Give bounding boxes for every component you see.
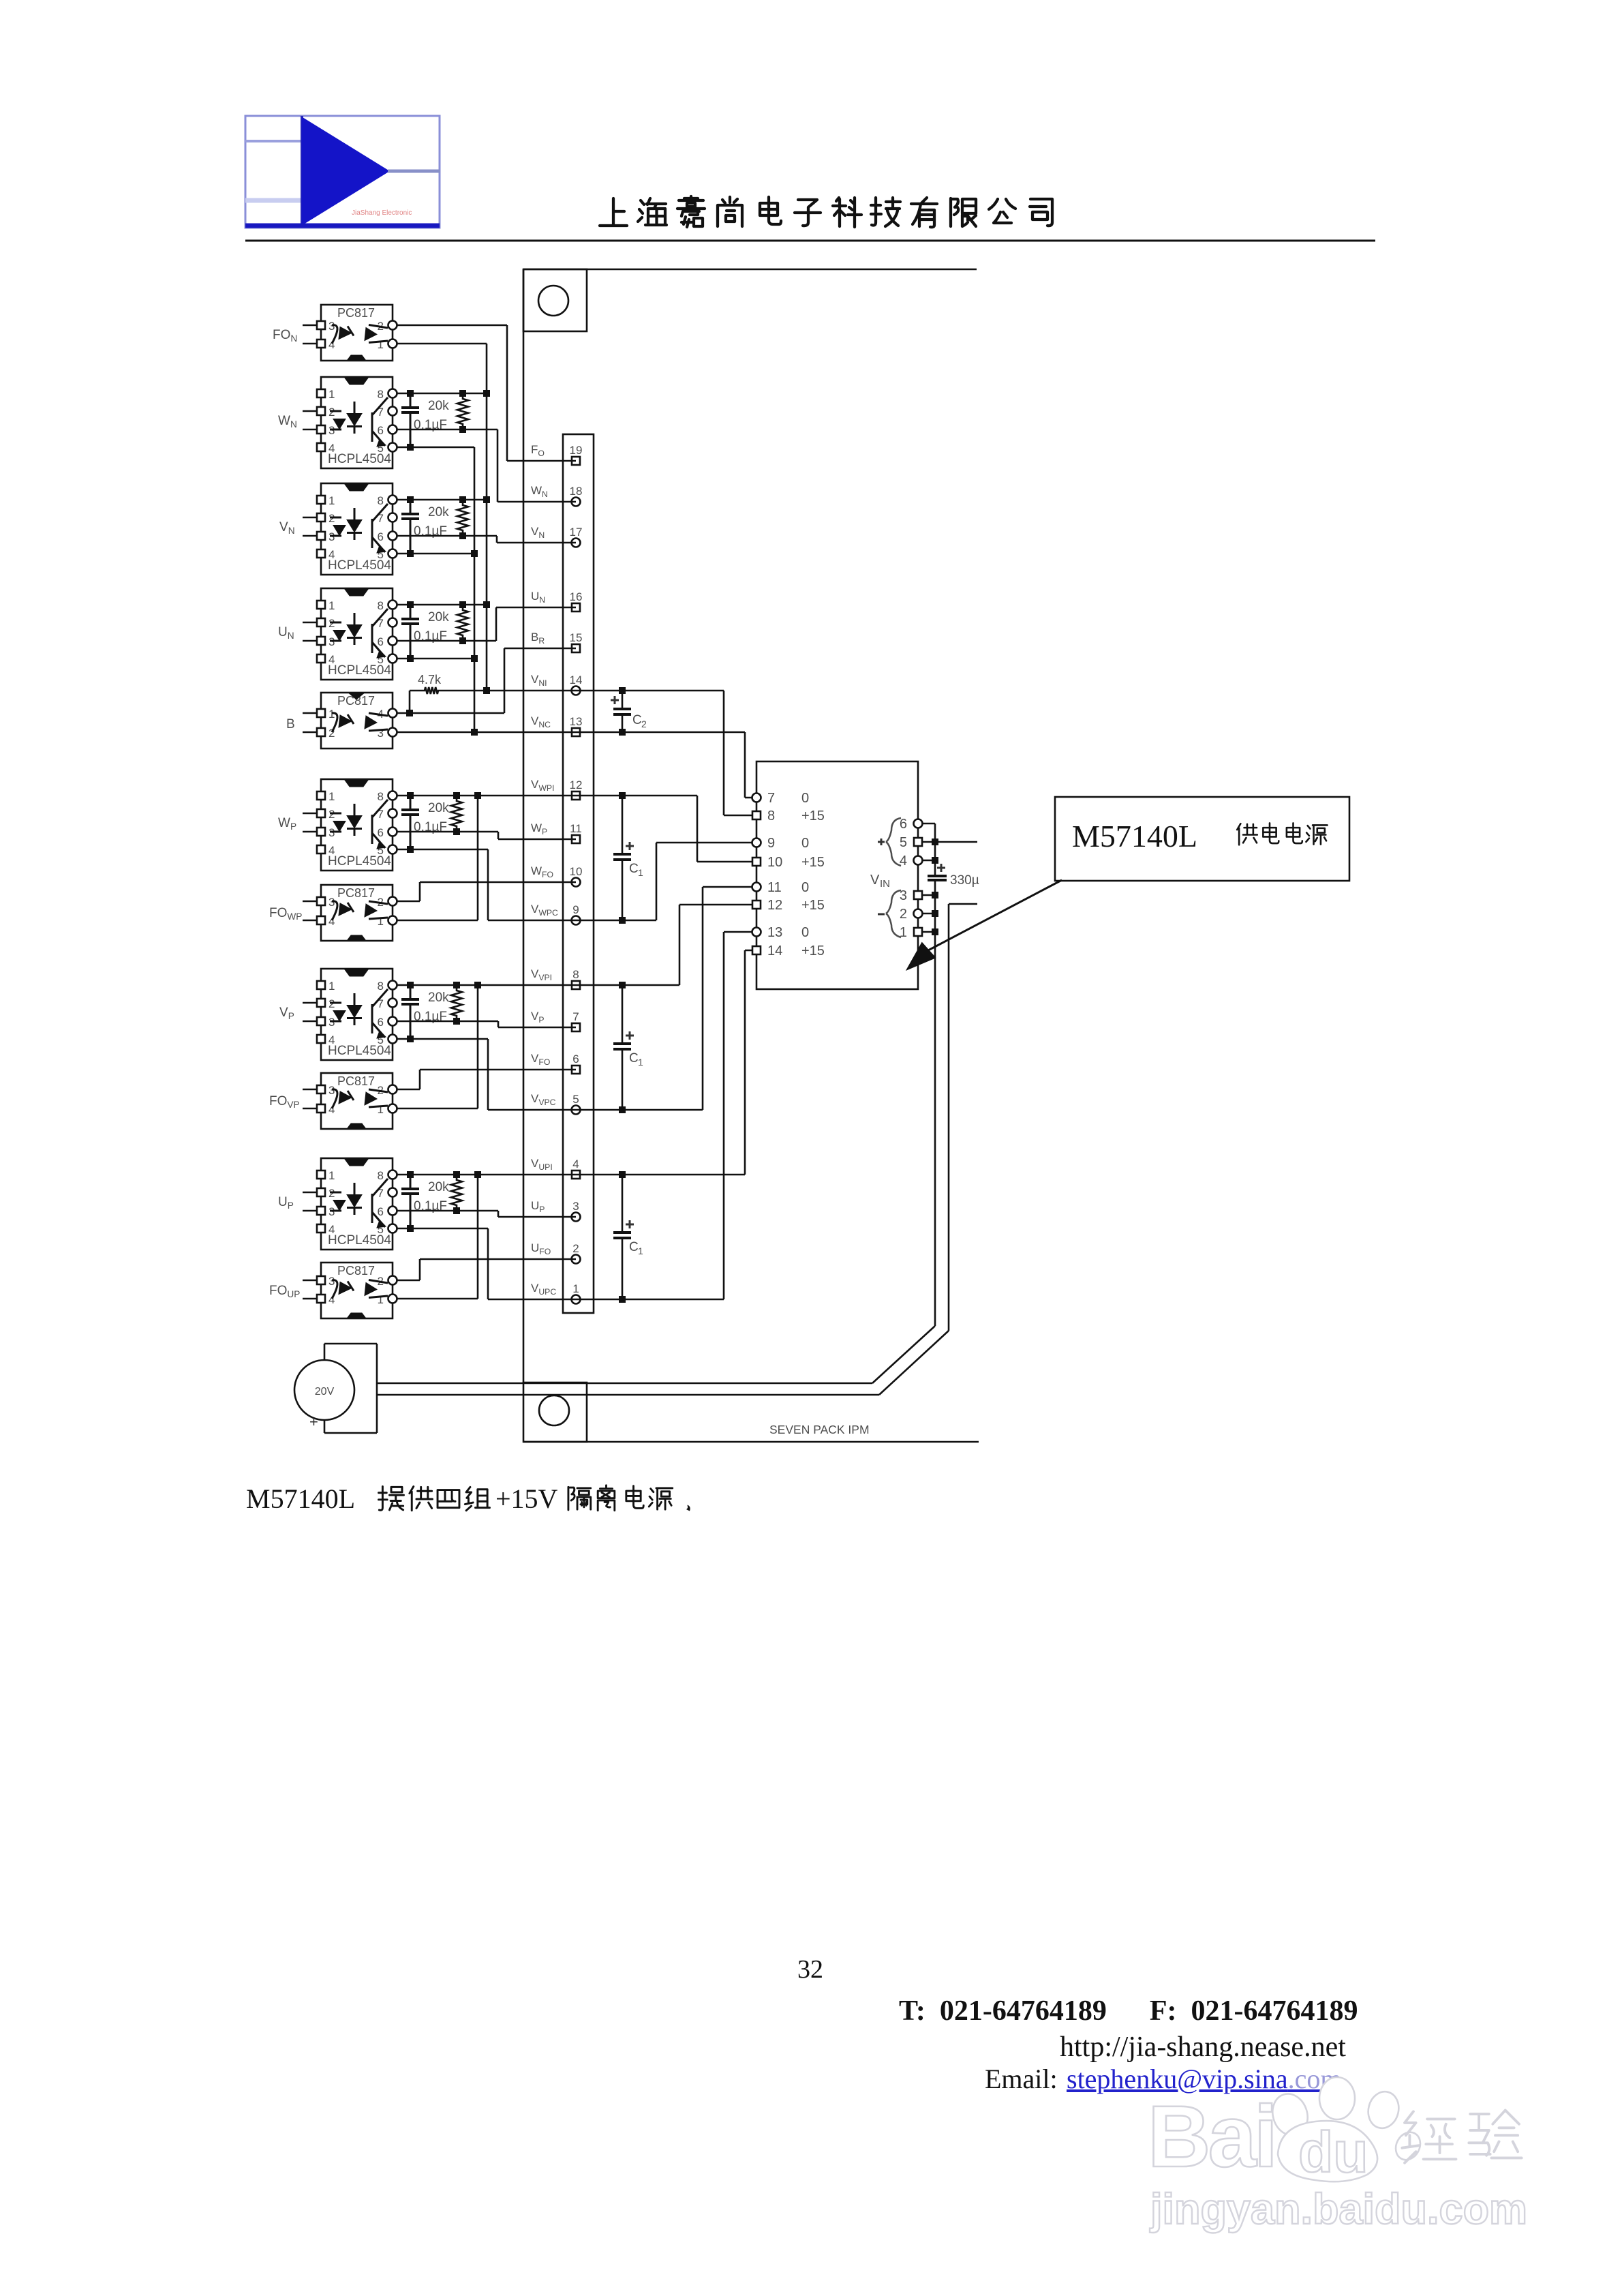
svg-text:8: 8 [378,1169,384,1182]
svg-text:7: 7 [572,1010,579,1023]
wire W_P pin5 to row9 [397,849,488,920]
svg-text:+15: +15 [801,809,825,824]
capacitor 0.1uF and resistor 20k group W_N [401,390,468,451]
wire row1 V_UPC to module pin13 [488,932,756,1299]
svg-text:BR: BR [531,631,545,646]
svg-text:6: 6 [378,826,384,839]
optocoupler U7 PC817 FO_WP [317,885,397,941]
caption text M57140L provides four +15V isolated supplies [246,1483,690,1514]
svg-text:1: 1 [572,1282,579,1295]
svg-text:14: 14 [767,943,782,958]
svg-text:IN: IN [880,878,890,890]
svg-text:20k: 20k [428,505,449,519]
svg-text:32: 32 [797,1955,823,1984]
svg-text:UN: UN [278,625,294,641]
svg-text:UFO: UFO [531,1241,551,1256]
junction row4 to FO_UP pin1 bus [397,1171,481,1299]
mounting hole bottom [523,1383,587,1442]
svg-text:jingyan.baidu.com: jingyan.baidu.com [1150,2186,1527,2233]
svg-text:1: 1 [378,1293,384,1306]
callout box CJK text [1237,823,1327,845]
svg-text:1: 1 [328,790,335,803]
contact phone fax [899,1995,1358,2027]
callout arrow [906,880,1062,970]
svg-text:5: 5 [572,1093,579,1106]
svg-text:7: 7 [767,791,775,806]
svg-text:M57140L: M57140L [246,1483,355,1514]
callout box M57140L label [1055,797,1349,881]
capacitor 330u [928,864,979,888]
svg-text:http://jia-shang.nease.net: http://jia-shang.nease.net [1060,2031,1346,2063]
wire V_N pin6 to J1 pin17 [397,536,576,543]
svg-text:9: 9 [572,903,579,916]
company name title [600,196,1052,227]
svg-text:8: 8 [378,790,384,803]
svg-text:13: 13 [767,925,782,940]
svg-text:9: 9 [767,836,775,851]
svg-text:du: du [1298,2120,1368,2184]
svg-text:3: 3 [328,320,335,333]
svg-text:8: 8 [767,809,775,824]
wire 20V positive diagonal [377,1326,935,1383]
junction +15N at W_N pin8 [397,390,490,397]
svg-text:6: 6 [378,635,384,648]
label FO_VP input [269,1094,300,1110]
svg-text:VUPI: VUPI [531,1157,553,1172]
wire U1 pin2 to J1 pin19 Fo [397,325,576,461]
svg-text:0: 0 [801,791,809,806]
svg-text:1: 1 [638,1245,643,1256]
svg-text:14: 14 [570,674,583,686]
svg-text:WP: WP [531,821,547,836]
wire 20V negative diagonal [377,1331,949,1395]
svg-text:VP: VP [531,1010,545,1025]
label B input [286,717,295,731]
wire row12 V_WPI from W_P pin8 to module pin10 [397,796,756,862]
contact url [1060,2031,1346,2063]
wire FO_UP pin2 to J1 pin2 [397,1259,576,1280]
label FO_UP input [269,1284,300,1299]
power module PS1 pin labels [752,761,923,989]
wire FO_WP pin2 to J1 pin10 [397,882,576,901]
svg-text:FON: FON [273,328,297,344]
svg-text:1: 1 [378,338,384,351]
svg-text:2: 2 [572,1242,579,1255]
mounting hole top [523,269,587,331]
svg-text:PC817: PC817 [337,1074,375,1088]
svg-text:3: 3 [378,727,384,740]
capacitor 0.1uF and resistor 20k group U_P [401,1171,462,1232]
svg-text:20V: 20V [315,1386,335,1398]
wire module right pins to VIN bus [922,824,938,876]
svg-text:13: 13 [570,715,583,728]
resistor R5 4.7k [410,673,442,713]
svg-text:20k: 20k [428,801,449,815]
svg-text:8: 8 [378,980,384,993]
svg-text:6: 6 [378,1205,384,1218]
svg-text:20k: 20k [428,991,449,1005]
wire U_P pin6 to J1 pin3 [397,1211,576,1217]
svg-text:PC817: PC817 [337,306,375,320]
svg-text:1: 1 [328,980,335,993]
junction COM-N at row13 [471,729,478,736]
svg-text:6: 6 [378,424,384,437]
svg-text:10: 10 [570,865,583,878]
svg-text:HCPL4504: HCPL4504 [328,1233,391,1248]
wire W_N pin6 to J1 pin18 [397,429,576,502]
capacitor 0.1uF and resistor 20k group W_P [401,792,462,853]
wire row8 V_VPI from V_P pin8 to module pin12 [397,905,756,985]
svg-text:V: V [870,873,880,888]
wire U_N pin6 to J1 pin16 [397,607,576,641]
svg-text:WN: WN [531,484,548,499]
junction +15N at row14 [483,687,490,694]
svg-text:3: 3 [328,1275,335,1288]
svg-text:VN: VN [279,520,295,536]
wire V_P pin6 to J1 pin7 [397,1021,576,1027]
svg-text:+15V: +15V [495,1483,558,1514]
capacitor C1 first [613,792,643,924]
svg-text:C: C [632,713,642,727]
svg-text:0: 0 [801,925,809,940]
wire VIN- stub branch [949,904,977,1331]
wire B inputs [303,713,317,732]
svg-text:1: 1 [328,1169,335,1182]
svg-text:VNI: VNI [531,673,547,688]
wire V_P pin5 to row5 [397,1039,488,1110]
svg-text:C: C [629,862,639,876]
svg-text:12: 12 [570,779,583,791]
svg-text:HCPL4504: HCPL4504 [328,558,391,573]
wire row14 V_NI to module [441,691,756,815]
wire V_N inputs [303,517,317,536]
svg-text:JiaShang Electronic: JiaShang Electronic [352,209,412,217]
svg-text:UP: UP [278,1195,294,1211]
label V_N input [279,520,295,536]
junction row12 to FO_WP pin1 bus [397,792,481,920]
wire U_P pin5 to row1 [397,1228,488,1299]
wire row9 V_WPC to module pin9 [488,843,756,920]
svg-text:3: 3 [328,896,335,909]
svg-text:8: 8 [378,599,384,612]
svg-text:6: 6 [572,1053,579,1066]
svg-text:HCPL4504: HCPL4504 [328,452,391,466]
svg-text:10: 10 [767,855,782,870]
optocoupler U8 HCPL4504 V_P [317,969,397,1060]
svg-text:0: 0 [801,880,809,895]
svg-text:VNC: VNC [531,714,551,729]
wire FO_VP pin2 to J1 pin6 [397,1070,576,1089]
capacitor 0.1uF and resistor 20k group V_N [401,496,468,557]
svg-text:B: B [286,717,295,731]
svg-text:1: 1 [328,494,335,507]
junction COM-N at U_N pin5 [397,655,478,662]
svg-text:1: 1 [378,1103,384,1116]
junction row8 to FO_VP pin1 bus [397,982,481,1108]
wire bus +15N from U1 pin1 to row14 [397,344,487,691]
watermark baidu jingyan [1148,2077,1527,2233]
svg-text:1: 1 [328,708,335,721]
svg-text:C: C [629,1051,639,1066]
svg-text:T: 021-64764189 F: 021-: T: 021-64764189 F: 021-64764189 [899,1995,1358,2027]
svg-text:VVPC: VVPC [531,1092,556,1107]
wire W_P inputs [303,813,317,832]
wire VIN+ stub [935,841,977,843]
wire VIN- bus [922,880,938,1326]
svg-text:C: C [629,1240,639,1254]
svg-text:VWPC: VWPC [531,903,558,918]
wire row13 V_NC U5 pin3 to module [397,732,756,798]
optocoupler U5 PC817 B [317,693,397,749]
svg-text:17: 17 [570,526,583,539]
capacitor C2 [611,687,647,736]
svg-text:SEVEN PACK IPM: SEVEN PACK IPM [769,1423,870,1436]
wire FO_UP inputs [303,1280,317,1299]
svg-text:UP: UP [531,1199,545,1214]
svg-text:FOVP: FOVP [269,1094,300,1110]
capacitor C1 third [613,1171,643,1303]
svg-text:4: 4 [572,1158,579,1170]
svg-text:Email:: Email: [985,2064,1058,2094]
svg-text:6: 6 [378,1016,384,1029]
wire row4 V_UPI from U_P pin8 to module pin14 [397,950,756,1175]
connector J1 pins and numbers [570,444,583,1304]
svg-text:+15: +15 [801,855,825,870]
svg-text:12: 12 [767,898,782,913]
svg-text:330µ: 330µ [950,873,979,888]
company logo [245,116,440,228]
label W_N input [278,414,297,429]
svg-text:19: 19 [570,444,583,457]
label U_N input [278,625,294,641]
svg-text:HCPL4504: HCPL4504 [328,663,391,678]
wire row5 V_VPC to module pin11 [488,887,756,1110]
optocoupler U10 HCPL4504 U_P [317,1158,397,1250]
svg-text:HCPL4504: HCPL4504 [328,854,391,868]
optocoupler U4 HCPL4504 U_N [317,588,397,680]
wire W_P pin6 to J1 pin11 [397,832,576,839]
label U_P input [278,1195,294,1211]
junction +15N at V_N pin8 [397,496,490,503]
optocoupler U1 PC817 FO_N [317,305,397,361]
label FO_WP input [269,906,302,922]
junction COM-N at V_N pin5 [397,550,478,557]
svg-text:20k: 20k [428,399,449,413]
wire bus COM-N from W_N pin5 to row13 [397,447,474,732]
svg-text:WP: WP [278,816,296,832]
svg-text:5: 5 [900,835,907,850]
svg-text:16: 16 [570,590,583,603]
svg-text:2: 2 [641,719,647,729]
connector J1 net labels [531,443,558,1297]
optocoupler U2 HCPL4504 W_N [317,377,397,468]
svg-text:PC817: PC817 [337,886,375,900]
capacitor C1 second [613,982,643,1113]
label FO_N [273,328,297,344]
header rule [245,240,1375,242]
svg-text:+15: +15 [801,943,825,958]
wire U_N inputs [303,622,317,641]
svg-text:WN: WN [278,414,297,429]
svg-text:FOUP: FOUP [269,1284,300,1299]
svg-text:1: 1 [328,388,335,401]
svg-text:VWPI: VWPI [531,778,554,793]
page number 32 [797,1955,823,1984]
svg-text:20k: 20k [428,1180,449,1194]
capacitor 0.1uF and resistor 20k group V_P [401,982,462,1042]
svg-text:20k: 20k [428,610,449,624]
wire W_N inputs [303,411,317,429]
source 20V [294,1344,377,1433]
junction +15N at U_N pin8 [397,601,490,608]
svg-text:0: 0 [801,836,809,851]
optocoupler U3 HCPL4504 V_N [317,483,397,575]
svg-text:8: 8 [572,968,579,981]
wire FO_N inputs [303,325,317,344]
svg-text:VN: VN [531,525,545,540]
label SEVEN PACK IPM [769,1423,870,1436]
label V_P input [279,1006,294,1021]
svg-text:VFO: VFO [531,1052,550,1067]
svg-text:+15: +15 [801,898,825,913]
svg-text:4.7k: 4.7k [418,673,442,686]
svg-text:+: + [309,1413,318,1430]
wire V_P inputs [303,1003,317,1021]
svg-text:Bai: Bai [1148,2088,1275,2186]
svg-text:3: 3 [328,1084,335,1097]
svg-text:1: 1 [378,915,384,928]
IPM module outline left edge and top/bottom lines [523,269,979,1442]
svg-text:FO: FO [531,443,545,458]
label W_P input [278,816,296,832]
svg-text:15: 15 [570,631,583,644]
wire U_P inputs [303,1192,317,1211]
svg-text:PC817: PC817 [337,1264,375,1278]
svg-text:VUPC: VUPC [531,1282,556,1297]
svg-text:FOWP: FOWP [269,906,302,922]
svg-text:HCPL4504: HCPL4504 [328,1044,391,1058]
wire FO_VP inputs [303,1089,317,1108]
svg-text:M57140L: M57140L [1072,819,1197,854]
svg-text:WFO: WFO [531,864,553,879]
capacitor 0.1uF and resistor 20k group U_N [401,601,468,662]
svg-text:VVPI: VVPI [531,967,552,982]
connector J1 strip outline [563,434,594,1313]
svg-text:8: 8 [378,494,384,507]
svg-text:1: 1 [328,599,335,612]
wire U5 pin4 to J1 pin15 B_R [397,648,576,713]
svg-text:1: 1 [638,1057,643,1068]
optocoupler U11 PC817 FO_UP [317,1263,397,1318]
svg-text:8: 8 [378,388,384,401]
svg-text:1: 1 [638,867,643,878]
svg-text:3: 3 [572,1200,579,1213]
svg-text:UN: UN [531,590,545,605]
optocoupler U9 PC817 FO_VP [317,1073,397,1129]
svg-text:VP: VP [279,1006,294,1021]
svg-text:2: 2 [900,907,907,922]
wire FO_WP inputs [303,901,317,920]
junction at 4.7k branch [406,710,413,716]
svg-text:11: 11 [570,822,582,835]
svg-text:11: 11 [767,880,782,895]
contact email [985,2064,1341,2094]
optocoupler U6 HCPL4504 W_P [317,779,397,871]
svg-text:6: 6 [378,530,384,543]
svg-text:18: 18 [570,485,583,498]
